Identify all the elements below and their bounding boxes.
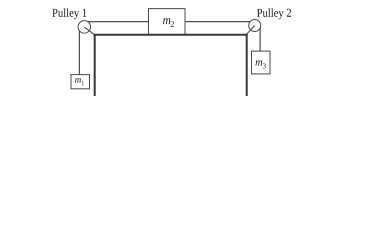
label Pulley 1 (52, 8, 86, 19)
mass m1 box (71, 75, 90, 89)
wire: left vertical string to m1 (78, 27, 80, 75)
label m2 (163, 18, 174, 26)
label m3 (256, 60, 266, 68)
pulley 2 (246, 20, 261, 35)
mass m2 box (149, 9, 186, 35)
pulley 1 (78, 21, 94, 35)
wire: right vertical string to m3 (259, 25, 261, 51)
table right leg (246, 34, 248, 96)
mass m3 box (252, 51, 271, 74)
wire: horizontal string pulley1 to pulley2 (84, 21, 255, 23)
label Pulley 2 (257, 8, 291, 19)
label m1 (75, 78, 84, 86)
table top (94, 34, 248, 36)
table left leg (94, 34, 96, 96)
